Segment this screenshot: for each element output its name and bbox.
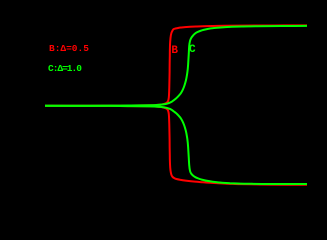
legend text C (48, 64, 81, 74)
curve C upper branch (green, delta=1.0) (45, 26, 307, 106)
curve B upper branch (red, delta=0.5) (45, 25, 307, 105)
curve label B (171, 46, 178, 57)
curve label C (189, 45, 196, 56)
legend text B (49, 44, 89, 54)
curve C lower branch (green, delta=1.0) (45, 106, 307, 184)
curve B lower branch (red, delta=0.5) (45, 106, 307, 185)
